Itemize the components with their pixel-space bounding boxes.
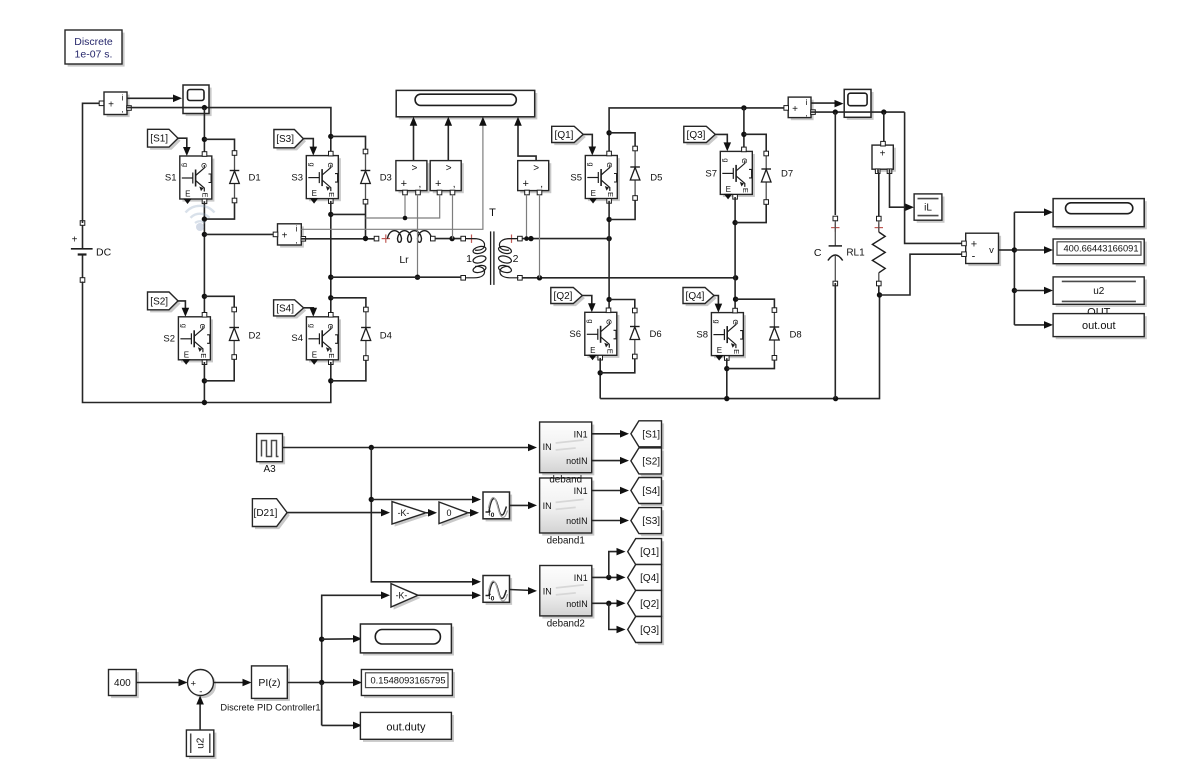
wifi watermark bbox=[186, 206, 215, 231]
svg-text:IN1: IN1 bbox=[574, 429, 588, 439]
wire U1 output to scope bbox=[410, 117, 418, 161]
svg-text:D6: D6 bbox=[650, 329, 662, 340]
svg-text:[S2]: [S2] bbox=[150, 296, 168, 307]
svg-text:u2: u2 bbox=[195, 737, 206, 749]
svg-text:Discrete: Discrete bbox=[74, 36, 113, 48]
transistor S1 (IGBT) bbox=[165, 152, 215, 204]
svg-text:E: E bbox=[590, 346, 595, 355]
svg-text:0: 0 bbox=[491, 596, 495, 603]
variable time delay 2 bbox=[483, 576, 512, 605]
wire S6 emitter to bottom rail, D6 return bbox=[598, 358, 635, 399]
From tag [S1] bbox=[148, 129, 181, 149]
subsystem deband1 bbox=[540, 478, 595, 536]
diode D5 bbox=[630, 146, 662, 200]
Goto tag [Q1] bbox=[628, 539, 664, 568]
svg-text:,: , bbox=[295, 236, 297, 245]
svg-text:i: i bbox=[122, 93, 124, 103]
svg-text:D5: D5 bbox=[650, 173, 662, 184]
svg-text:[S4]: [S4] bbox=[276, 303, 294, 314]
svg-text:E: E bbox=[199, 353, 208, 358]
svg-text:[Q1]: [Q1] bbox=[640, 547, 659, 558]
svg-text:IN: IN bbox=[543, 442, 552, 452]
svg-text:notIN: notIN bbox=[566, 516, 588, 526]
svg-text:[S3]: [S3] bbox=[642, 516, 660, 527]
svg-text:D3: D3 bbox=[380, 173, 392, 184]
wire S5 leg top / D5 branch bbox=[606, 130, 635, 155]
subsystem deband bbox=[540, 422, 595, 475]
wire rail to load current measurement bbox=[883, 112, 885, 141]
Goto tag [S2] bbox=[631, 448, 664, 477]
svg-text:g: g bbox=[586, 319, 595, 323]
svg-text:IN1: IN1 bbox=[574, 573, 588, 583]
wire U2 output to scope bbox=[445, 117, 453, 161]
wire [S4] to S4 gate bbox=[304, 308, 317, 317]
svg-text:E: E bbox=[732, 349, 741, 354]
svg-text:,: , bbox=[540, 179, 543, 190]
scope (duty) bbox=[360, 624, 454, 656]
svg-text:400.66443166091: 400.66443166091 bbox=[1064, 244, 1139, 254]
label deband1 bbox=[547, 536, 585, 547]
resistor RL1 bbox=[846, 216, 885, 286]
wire [S1] to S1 gate bbox=[177, 138, 191, 156]
svg-text:g: g bbox=[586, 162, 595, 166]
svg-text:u2: u2 bbox=[1093, 286, 1105, 297]
svg-text:-K-: -K- bbox=[396, 590, 408, 600]
current measurement block (input side) bbox=[99, 92, 131, 117]
svg-text:+: + bbox=[522, 178, 528, 190]
wire S3 emitter node B, D3 return bbox=[328, 201, 366, 317]
wire gain to gain 0 bbox=[426, 509, 437, 517]
svg-text:-K-: -K- bbox=[398, 508, 410, 518]
transistor S5 (IGBT) bbox=[570, 151, 620, 203]
wire voltage sense U1+/U2+ (gray) bbox=[366, 194, 440, 220]
wire voltage sense U1- (gray) bbox=[415, 194, 420, 280]
svg-text:[Q2]: [Q2] bbox=[554, 291, 573, 302]
svg-text:E: E bbox=[591, 189, 596, 198]
svg-text:g: g bbox=[307, 324, 316, 328]
svg-text:,: , bbox=[805, 109, 807, 118]
svg-text:+: + bbox=[792, 104, 798, 115]
svg-text:E: E bbox=[312, 350, 317, 359]
svg-text:>: > bbox=[411, 163, 417, 174]
svg-text:iL: iL bbox=[924, 203, 932, 214]
svg-text:RL1: RL1 bbox=[846, 248, 865, 259]
wire [Q1] to S5 gate bbox=[583, 134, 596, 155]
diode D1 bbox=[230, 151, 261, 203]
diode D4 bbox=[361, 307, 392, 360]
svg-text:1e-07 s.: 1e-07 s. bbox=[75, 49, 113, 61]
wire voltage sense U2- (gray) bbox=[452, 194, 454, 239]
svg-text:,: , bbox=[419, 179, 422, 190]
scope (output) bbox=[844, 89, 873, 120]
wire secondary top rail bbox=[522, 236, 612, 241]
gain 0 bbox=[439, 502, 471, 526]
transformer T bbox=[461, 207, 522, 285]
svg-text:+: + bbox=[282, 231, 288, 242]
svg-text:IN: IN bbox=[543, 587, 552, 597]
Discrete PID Controller PI(z) bbox=[220, 666, 320, 713]
gain -K- 2 (duty) bbox=[391, 584, 421, 610]
From tag [Q1] bbox=[552, 126, 586, 145]
wire top rail (right bridge) bbox=[609, 105, 786, 133]
wire A3 to deband and delay blocks bbox=[283, 444, 538, 586]
wire [Q4] to S8 gate bbox=[714, 296, 723, 313]
From tag u2 (rotated) bbox=[186, 730, 216, 759]
wire load meas i to Goto iL bbox=[890, 169, 915, 211]
diode D7 bbox=[761, 151, 793, 204]
svg-text:+: + bbox=[401, 178, 407, 190]
svg-text:[Q4]: [Q4] bbox=[686, 291, 705, 302]
svg-text:>: > bbox=[533, 163, 539, 174]
wire RL1 bottom junction bbox=[877, 254, 962, 297]
svg-text:DC: DC bbox=[96, 247, 112, 259]
wire gain2 to delay2 bbox=[418, 592, 481, 600]
wire rail to voltage measurement + bbox=[905, 112, 962, 243]
wire node A to S2, tap to current measurement bbox=[202, 232, 235, 317]
svg-text:E: E bbox=[327, 353, 336, 358]
display 0.1548093165795 bbox=[361, 670, 455, 699]
svg-text:[D21]: [D21] bbox=[254, 508, 278, 519]
From tag [S4] bbox=[274, 300, 307, 319]
wire S4 emitter to bottom rail, D4 return bbox=[328, 361, 366, 384]
svg-text:+: + bbox=[191, 679, 197, 690]
variable time delay 1 bbox=[483, 492, 512, 521]
transistor S6 (IGBT) bbox=[569, 308, 619, 360]
wire delay2 to deband2 bbox=[510, 587, 538, 595]
svg-text:IN1: IN1 bbox=[574, 486, 588, 496]
svg-text:g: g bbox=[181, 163, 190, 167]
svg-text:,: , bbox=[121, 105, 123, 114]
Goto tag [Q4] bbox=[628, 565, 664, 594]
scope (input current) bbox=[183, 85, 212, 116]
svg-text:E: E bbox=[200, 192, 209, 197]
wire [Q3] to S7 gate bbox=[715, 134, 731, 151]
wire PI branch to gain -K- 2 bbox=[322, 592, 390, 726]
svg-text:notIN: notIN bbox=[566, 456, 588, 466]
svg-text:+: + bbox=[880, 149, 886, 160]
svg-text:[Q2]: [Q2] bbox=[640, 599, 659, 610]
svg-text:[S1]: [S1] bbox=[150, 134, 168, 145]
To Workspace out.out bbox=[1053, 314, 1147, 340]
wire secondary bottom rail bbox=[522, 275, 738, 280]
svg-text:g: g bbox=[712, 320, 721, 324]
diode D3 bbox=[361, 149, 392, 204]
transistor S3 (IGBT) bbox=[291, 151, 341, 203]
svg-text:[Q3]: [Q3] bbox=[687, 130, 706, 141]
label deband bbox=[549, 475, 582, 486]
wire bottom rail (right bridge) bbox=[600, 295, 879, 401]
wire [S3] to S3 gate bbox=[303, 139, 317, 156]
wire node A tap to current measurement bbox=[204, 233, 273, 235]
wire deband IN1 to [S1] bbox=[592, 430, 629, 438]
svg-text:E: E bbox=[184, 350, 189, 359]
voltage measurement V (output) bbox=[962, 233, 1001, 266]
svg-text:E: E bbox=[726, 185, 731, 194]
svg-text:,: , bbox=[453, 179, 456, 190]
capacitor C bbox=[814, 216, 843, 286]
svg-text:deband1: deband1 bbox=[547, 536, 585, 547]
wire output current meas i to scope bbox=[811, 100, 844, 108]
svg-text:E: E bbox=[327, 192, 336, 197]
To Workspace out.duty bbox=[360, 712, 454, 742]
From tag [D21] bbox=[252, 499, 289, 529]
wire S5 emitter node, D5 return bbox=[606, 200, 635, 312]
svg-text:i: i bbox=[806, 97, 808, 107]
svg-text:S8: S8 bbox=[696, 330, 708, 341]
wire Lr to transformer primary bbox=[435, 236, 461, 241]
current measurement block (load, vertical) bbox=[872, 141, 896, 173]
wire deband1 IN1 to [S4] bbox=[592, 487, 629, 495]
wire PI output to displays bbox=[287, 635, 362, 729]
svg-text:+: + bbox=[108, 100, 114, 111]
svg-text:[S4]: [S4] bbox=[642, 486, 660, 497]
svg-text:1: 1 bbox=[466, 253, 472, 265]
svg-text:out.out: out.out bbox=[1082, 320, 1116, 332]
svg-text:E: E bbox=[605, 349, 614, 354]
Goto tag [Q2] bbox=[628, 590, 664, 619]
Goto tag [S1] bbox=[631, 421, 664, 450]
svg-text:S4: S4 bbox=[291, 333, 303, 344]
svg-text:[Q3]: [Q3] bbox=[640, 625, 659, 636]
wire 400 to sum bbox=[136, 679, 187, 687]
wire output dc rail bbox=[811, 109, 905, 114]
voltage measurement U2 bbox=[430, 161, 464, 195]
svg-text:S1: S1 bbox=[165, 173, 177, 184]
svg-text:g: g bbox=[179, 324, 188, 328]
svg-text:D4: D4 bbox=[380, 331, 392, 342]
wire V output to display column bbox=[999, 208, 1054, 328]
wire [S2] to S2 gate bbox=[177, 301, 189, 317]
transistor S4 (IGBT) bbox=[291, 313, 341, 365]
svg-text:g: g bbox=[721, 158, 730, 162]
diode D2 bbox=[229, 307, 260, 359]
wire deband1 notIN to [S3] bbox=[592, 517, 629, 525]
svg-text:0: 0 bbox=[491, 512, 495, 519]
svg-text:S3: S3 bbox=[291, 173, 303, 184]
svg-text:>: > bbox=[446, 163, 452, 174]
display block 400.66443166091 bbox=[1053, 239, 1147, 266]
label deband2 bbox=[547, 619, 585, 630]
From tag [Q2] bbox=[551, 288, 585, 307]
svg-text:v: v bbox=[989, 245, 994, 256]
wire deband2 IN1 to [Q1]/[Q4] bbox=[592, 548, 626, 581]
svg-text:deband2: deband2 bbox=[547, 619, 585, 630]
voltage measurement U3 bbox=[518, 161, 552, 195]
svg-text:400: 400 bbox=[114, 678, 131, 689]
wire primary bottom rail bbox=[331, 276, 461, 278]
Goto tag u2 bbox=[1053, 277, 1147, 307]
svg-text:-: - bbox=[972, 251, 976, 263]
powergui block "Discrete 1e-07 s." bbox=[65, 30, 125, 67]
scope (bridge waveforms, wide) bbox=[396, 90, 537, 119]
gain -K- (phase) bbox=[392, 502, 429, 527]
wire sum to PI bbox=[214, 679, 252, 687]
From tag [S2] bbox=[148, 292, 181, 312]
svg-text:D2: D2 bbox=[249, 331, 261, 342]
wire S8 emitter to bottom rail, D8 return bbox=[724, 358, 774, 398]
svg-text:D1: D1 bbox=[249, 173, 261, 184]
label OUT (clipped by out.out block) bbox=[1087, 307, 1111, 319]
current measurement block (primary) bbox=[273, 224, 305, 248]
wire gain 0 to delay1 bbox=[468, 509, 479, 517]
voltage measurement U1 bbox=[396, 161, 430, 195]
svg-text:+: + bbox=[72, 235, 78, 246]
wire U3 output to scope bbox=[514, 117, 536, 161]
wire delay1 to deband1 bbox=[510, 502, 538, 510]
wire primary rail to Lr bbox=[301, 236, 374, 241]
svg-text:S2: S2 bbox=[163, 334, 175, 345]
wire DC+ to current measurement bbox=[83, 103, 100, 223]
svg-text:D7: D7 bbox=[781, 169, 793, 180]
wire deband2 notIN to [Q2]/[Q3] bbox=[592, 600, 626, 634]
wire S7 emitter node, D7 return bbox=[732, 197, 774, 313]
svg-text:[S2]: [S2] bbox=[642, 456, 660, 467]
svg-text:T: T bbox=[489, 207, 496, 219]
wire deband notIN to [S2] bbox=[592, 457, 629, 465]
wire S2 emitter to bottom rail, D2 return bbox=[202, 360, 235, 403]
svg-text:S7: S7 bbox=[705, 169, 717, 180]
wire [D21] to gain bbox=[288, 509, 391, 517]
svg-text:-: - bbox=[199, 687, 202, 698]
svg-text:E: E bbox=[606, 192, 615, 197]
svg-text:E: E bbox=[312, 189, 317, 198]
svg-text:S6: S6 bbox=[569, 329, 581, 340]
From tag [Q4] bbox=[683, 288, 717, 307]
svg-text:C: C bbox=[814, 247, 822, 259]
From tag [S3] bbox=[274, 130, 306, 151]
svg-text:out.duty: out.duty bbox=[386, 722, 426, 734]
svg-text:E: E bbox=[741, 188, 750, 193]
transistor S2 (IGBT) bbox=[163, 313, 213, 365]
wire voltage sense U3+ (gray) bbox=[524, 194, 529, 241]
svg-text:[Q1]: [Q1] bbox=[555, 130, 574, 141]
svg-text:E: E bbox=[185, 190, 190, 199]
wire S1 leg top / D1 branch bbox=[202, 108, 235, 156]
svg-text:[S1]: [S1] bbox=[642, 429, 660, 440]
svg-text:PI(z): PI(z) bbox=[258, 677, 280, 689]
pulse generator A3 bbox=[257, 434, 286, 475]
svg-text:A3: A3 bbox=[263, 464, 276, 475]
svg-text:deband: deband bbox=[549, 475, 582, 486]
svg-text:E: E bbox=[717, 346, 722, 355]
svg-text:+: + bbox=[435, 178, 441, 190]
DC voltage source DC bbox=[71, 221, 112, 283]
wire top-left rail (DC+ bus) bbox=[127, 105, 331, 136]
wire S7 leg top / D7 branch bbox=[741, 108, 766, 151]
wire C to bottom rail bbox=[834, 283, 836, 399]
svg-text:[Q4]: [Q4] bbox=[640, 573, 659, 584]
scope (output voltage) bbox=[1053, 199, 1147, 230]
transistor S8 (IGBT) bbox=[696, 308, 746, 360]
svg-text:g: g bbox=[307, 163, 316, 167]
svg-text:Lr: Lr bbox=[399, 254, 409, 266]
wire S3 leg top / D3 branch bbox=[328, 134, 365, 156]
svg-text:2: 2 bbox=[513, 253, 519, 265]
Goto tag [Q3] bbox=[628, 617, 664, 646]
wire [Q2] to S6 gate bbox=[582, 296, 596, 313]
wire current meas i output to scope (gray) bbox=[301, 117, 486, 230]
svg-text:+: + bbox=[971, 239, 977, 251]
Goto tag iL bbox=[914, 194, 944, 223]
current measurement block (output side) bbox=[784, 97, 815, 120]
svg-text:0: 0 bbox=[446, 508, 451, 518]
wire current meas i output to scope bbox=[127, 95, 182, 103]
svg-text:notIN: notIN bbox=[566, 599, 588, 609]
transistor S7 (IGBT) bbox=[705, 147, 755, 199]
svg-text:Discrete PID Controller1: Discrete PID Controller1 bbox=[220, 703, 320, 713]
wire voltage sense U3- (gray) bbox=[539, 194, 541, 278]
sum junction (error) bbox=[188, 670, 217, 699]
wire DC- bottom rail (left bridge) bbox=[83, 282, 331, 406]
svg-text:D8: D8 bbox=[790, 330, 802, 341]
svg-text:[S3]: [S3] bbox=[276, 134, 294, 145]
svg-text:i: i bbox=[296, 224, 298, 234]
wire u2 to sum bbox=[196, 696, 204, 731]
From tag [Q3] bbox=[684, 126, 718, 145]
Goto tag [S4] bbox=[631, 478, 664, 507]
svg-text:0.1548093165795: 0.1548093165795 bbox=[371, 675, 446, 685]
subsystem deband2 bbox=[540, 566, 595, 619]
svg-text:S5: S5 bbox=[570, 173, 582, 184]
constant 400 bbox=[109, 670, 139, 699]
diode D8 bbox=[770, 308, 802, 360]
inductor Lr bbox=[374, 231, 435, 266]
svg-text:IN: IN bbox=[543, 501, 552, 511]
Goto tag [S3] bbox=[631, 508, 664, 537]
diode D6 bbox=[630, 308, 662, 359]
wire S1 emitter to node A, D1 return bbox=[202, 201, 235, 234]
wire C branch bbox=[834, 112, 836, 215]
wire load meas to RL1 bbox=[877, 169, 880, 216]
